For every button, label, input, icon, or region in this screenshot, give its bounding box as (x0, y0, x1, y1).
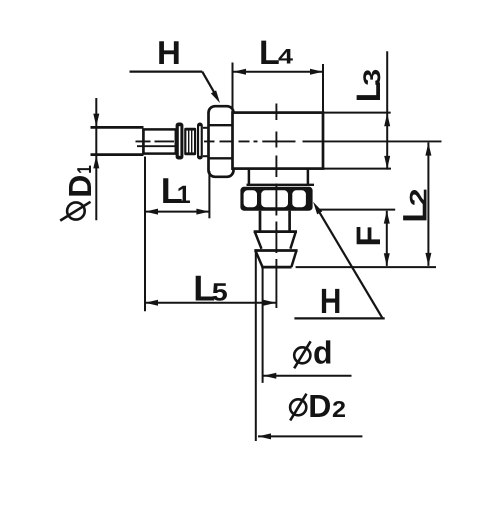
svg-text:H: H (320, 282, 342, 321)
svg-text:D: D (62, 175, 98, 198)
svg-text:H: H (157, 34, 181, 71)
svg-text:3: 3 (359, 69, 386, 86)
svg-text:F: F (350, 226, 388, 247)
svg-text:1: 1 (74, 165, 96, 174)
svg-text:L: L (259, 34, 280, 72)
svg-text:1: 1 (177, 181, 191, 209)
svg-text:2: 2 (405, 188, 432, 206)
svg-text:5: 5 (212, 278, 228, 306)
svg-text:4: 4 (278, 46, 293, 69)
svg-text:d: d (313, 335, 333, 371)
svg-text:2: 2 (332, 396, 346, 422)
svg-text:D: D (308, 388, 331, 424)
